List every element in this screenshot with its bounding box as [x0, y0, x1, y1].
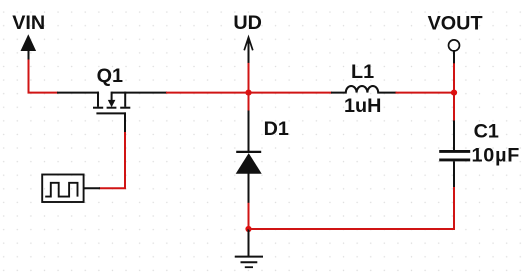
wire UD arrow shaft (black) — [248, 38, 250, 64]
Q1 drain lead stub — [124, 92, 126, 107]
wire VOUT junction to C1 (black) — [453, 121, 455, 151]
UD arrow head (open) — [244, 37, 253, 50]
transistor Q1 — [93, 92, 130, 114]
wire UD to L1 (red) — [249, 92, 333, 94]
junction ground node — [245, 226, 251, 232]
wire Q1 gate down (black) — [124, 112, 126, 133]
wire VOUT junction to C1 (red) — [453, 93, 455, 122]
svg-text:L1: L1 — [351, 61, 374, 83]
wire generator output stub (black) — [84, 187, 100, 189]
wire VIN corner (red) — [29, 60, 59, 93]
wire Q1 drain to node UD (red) — [166, 92, 249, 94]
wire Q1 drain to node UD (black) — [112, 92, 167, 94]
wire VIN arrow stub (black) — [28, 50, 30, 61]
ground symbol — [235, 257, 263, 268]
svg-text:C1: C1 — [474, 121, 499, 143]
Q1 source contact bar — [93, 107, 103, 109]
capacitor C1 bottom plate — [439, 158, 470, 161]
capacitor C1 top plate — [439, 150, 470, 153]
wire UD to D1 (red) — [248, 93, 250, 112]
junction node UD — [245, 90, 251, 96]
terminal VOUT circle — [449, 40, 460, 51]
svg-text:VOUT: VOUT — [428, 13, 483, 35]
svg-text:Q1: Q1 — [97, 65, 123, 87]
wire D1 anode down (black) — [248, 174, 250, 204]
svg-text:10µF: 10µF — [472, 145, 521, 167]
power symbol VIN arrow — [21, 34, 37, 51]
VG square-wave glyph — [45, 183, 77, 197]
svg-text:VIN: VIN — [12, 12, 45, 34]
wire UD arrow shaft (red) — [248, 63, 250, 93]
Q1 bulk contact bar — [107, 107, 117, 109]
Q1 bulk arrow — [108, 100, 116, 107]
svg-text:1uH: 1uH — [344, 95, 381, 117]
inductor L1 — [331, 86, 397, 93]
wire Q1 gate to generator (red) — [99, 132, 125, 188]
diode D1 triangle — [236, 153, 262, 174]
svg-text:UD: UD — [233, 12, 262, 34]
wire D1 to ground junction (red) — [248, 203, 250, 229]
wire bottom rail C1 to ground junction (red) — [249, 187, 455, 229]
wire VOUT terminal down (black) — [453, 51, 455, 64]
junction node VOUT — [451, 90, 457, 96]
wire C1 bottom lead (black) — [453, 161, 455, 188]
wire to Q1 source (black) — [57, 92, 99, 94]
diode D1 cathode bar — [236, 151, 261, 153]
voltage generator VG box — [42, 175, 83, 203]
Q1 gate line — [96, 112, 126, 114]
Q1 source lead stub — [97, 92, 99, 107]
wire L1 to node VOUT (red) — [396, 92, 455, 94]
Q1 drain contact bar — [120, 107, 130, 109]
wire UD to D1 (black) — [248, 111, 250, 152]
wire VOUT terminal to junction (red) — [453, 63, 455, 92]
wire junction to ground symbol (black) — [248, 229, 250, 256]
svg-text:D1: D1 — [264, 118, 289, 140]
Q1 bulk lead — [111, 92, 113, 101]
